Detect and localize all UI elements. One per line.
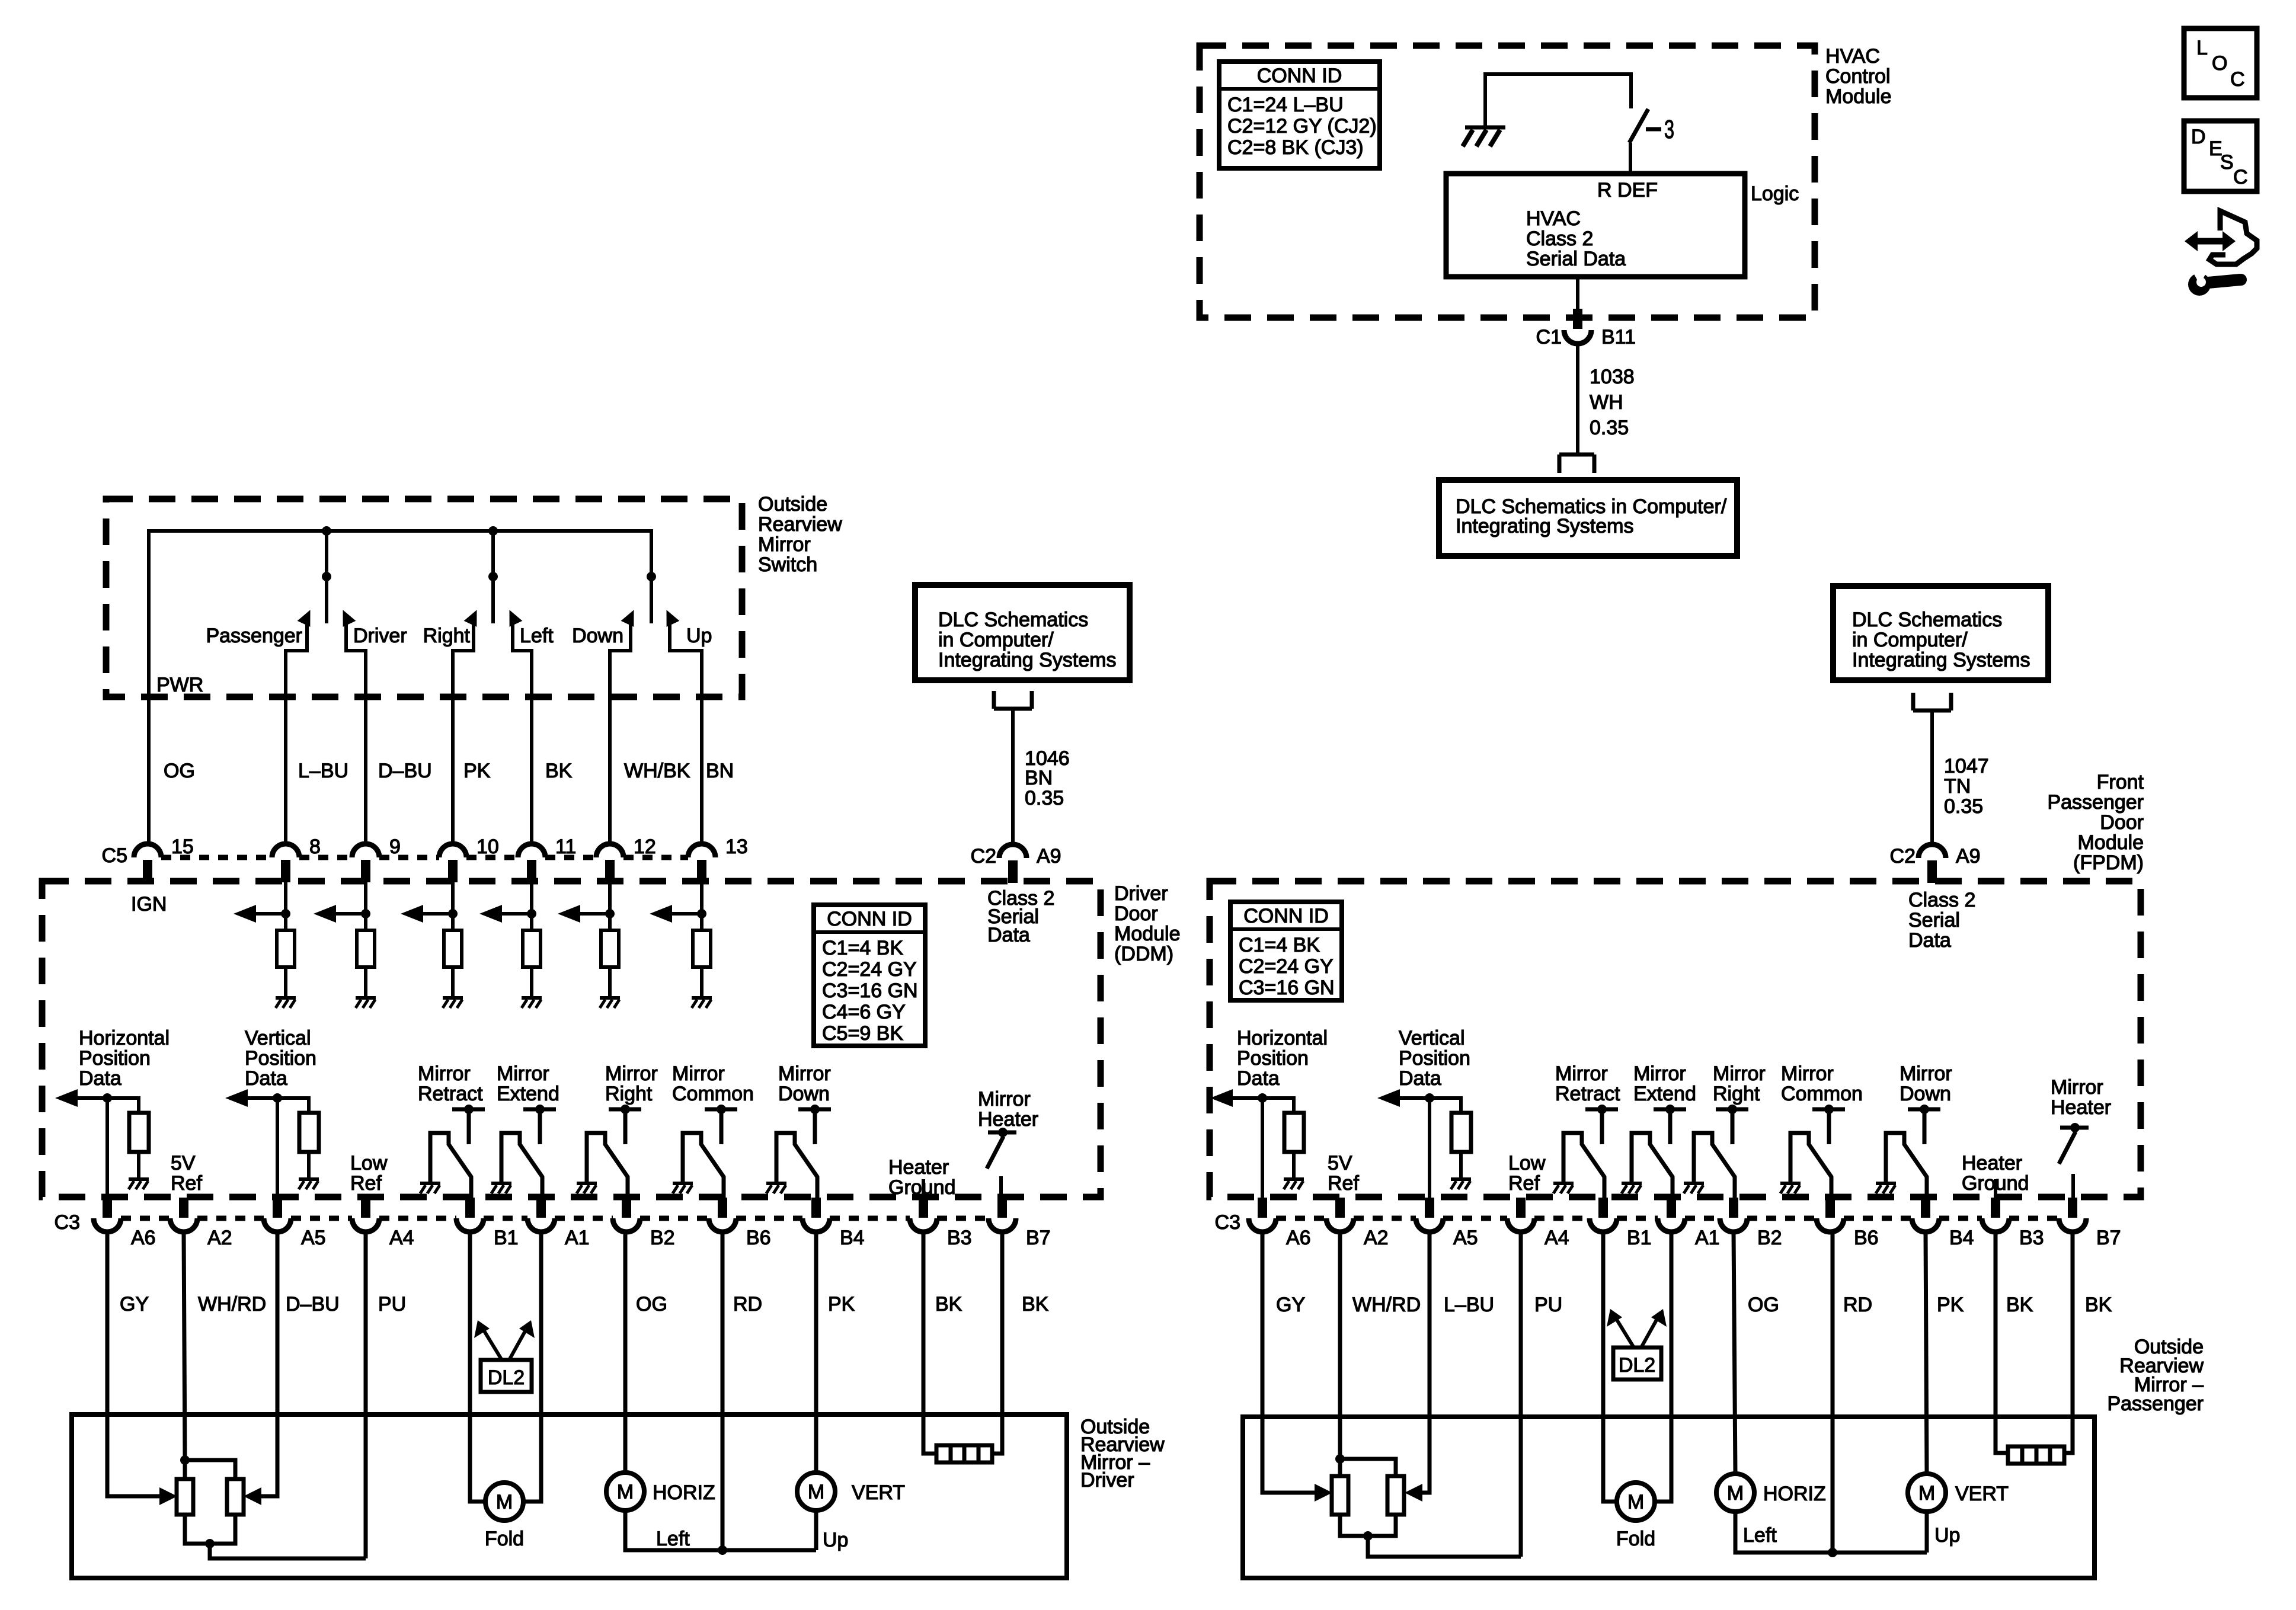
wire WH/RD (driver)	[184, 1232, 185, 1460]
svg-text:PK: PK	[463, 760, 491, 782]
svg-text:Integrating Systems: Integrating Systems	[938, 649, 1116, 671]
male pin C2/A9 (FPDM)	[1927, 860, 1937, 883]
svg-text:B1: B1	[1627, 1227, 1652, 1249]
male pin A6 (DDM)	[103, 1198, 112, 1218]
ground of switch Mirror Right (FPDM)	[1684, 1183, 1704, 1193]
svg-text:11: 11	[555, 836, 576, 858]
svg-text:Down: Down	[778, 1083, 830, 1105]
svg-text:Data: Data	[79, 1067, 121, 1090]
svg-text:Passenger: Passenger	[206, 625, 302, 647]
svg-text:C: C	[2230, 68, 2245, 91]
svg-text:A9: A9	[1037, 845, 1061, 868]
male pin 12	[605, 860, 615, 882]
label Mirror Extend (FPDM)	[1633, 1062, 1696, 1105]
connector C1/B11	[1564, 330, 1591, 344]
pull-down resistor pin 8	[277, 930, 295, 967]
heater ground stub B3 (DDM)	[922, 1179, 925, 1198]
male pin 10	[448, 860, 458, 882]
wire PK (driver)	[814, 1232, 818, 1473]
svg-text:B4: B4	[1949, 1227, 1974, 1249]
male pin A5 (DDM)	[273, 1198, 282, 1218]
svg-text:IGN: IGN	[131, 893, 167, 916]
male pin B4 (FPDM)	[1921, 1198, 1930, 1218]
svg-text:C2=8 BK (CJ3): C2=8 BK (CJ3)	[1227, 136, 1364, 159]
connector dome pin 15	[134, 844, 161, 857]
Outside Rearview Mirror Switch label	[758, 493, 842, 576]
wire motor VERT down (driver)	[814, 1510, 818, 1550]
motor M HORIZ (driver)	[606, 1473, 644, 1510]
motor M Fold (passenger)	[1617, 1483, 1655, 1521]
switch Mirror Down (FPDM) blade/contact	[1886, 1133, 1927, 1198]
ground (Vertical position, FPDM)	[1451, 1179, 1471, 1189]
Heater Ground label (DDM)	[888, 1156, 955, 1199]
svg-text:Fold: Fold	[485, 1528, 524, 1550]
male pin A2 (FPDM)	[1335, 1198, 1345, 1218]
svg-text:Ref: Ref	[171, 1172, 202, 1195]
svg-text:PK: PK	[828, 1293, 855, 1315]
svg-text:Mirror: Mirror	[1555, 1062, 1608, 1085]
svg-text:Vertical: Vertical	[1399, 1027, 1465, 1049]
ground of switch Mirror Extend (FPDM)	[1622, 1183, 1642, 1193]
male pin B2 (DDM)	[622, 1198, 631, 1218]
switch Mirror Common (FPDM) blade/contact	[1790, 1133, 1831, 1198]
Vertical Position Data label (FPDM)	[1399, 1027, 1470, 1090]
switch Mirror Common (DDM) T-bar	[705, 1105, 737, 1144]
svg-text:M: M	[617, 1481, 634, 1503]
wire BK B7 to heater (driver)	[992, 1232, 1002, 1454]
svg-text:Mirror: Mirror	[978, 1088, 1031, 1110]
male pin A5 (FPDM)	[1425, 1198, 1434, 1218]
connector cup B4 (DDM)	[802, 1218, 830, 1232]
junction dots on bus	[322, 526, 498, 536]
svg-text:Horizontal: Horizontal	[1237, 1027, 1328, 1049]
svg-text:Data: Data	[1908, 929, 1951, 952]
svg-text:B6: B6	[746, 1227, 771, 1249]
connector cup B2 (FPDM)	[1720, 1218, 1747, 1232]
connector dome C2/A9 (FPDM)	[1918, 844, 1946, 858]
male pin 15	[143, 860, 152, 882]
svg-text:A1: A1	[565, 1227, 590, 1249]
connector cup B6 (FPDM)	[1817, 1218, 1844, 1232]
svg-text:B2: B2	[650, 1227, 675, 1249]
svg-text:A2: A2	[207, 1227, 232, 1249]
svg-text:1038: 1038	[1590, 366, 1635, 388]
ground of switch Mirror Down (FPDM)	[1876, 1183, 1896, 1193]
svg-text:Fold: Fold	[1616, 1528, 1655, 1550]
switch Mirror Retract (FPDM) T-bar	[1585, 1105, 1618, 1144]
label Mirror Right (DDM)	[605, 1062, 658, 1105]
svg-text:Front: Front	[2097, 771, 2144, 793]
mirror heater element (driver)	[936, 1445, 992, 1462]
input wire pin 13	[700, 882, 703, 930]
motor M VERT (driver)	[797, 1473, 835, 1510]
svg-text:C1=4 BK: C1=4 BK	[1239, 934, 1320, 956]
switch Mirror Right (FPDM) T-bar	[1716, 1105, 1748, 1144]
Mirror Heater label (FPDM)	[2051, 1076, 2111, 1119]
svg-text:RD: RD	[733, 1293, 762, 1315]
svg-text:Left: Left	[520, 625, 554, 647]
Driver Door Module box	[42, 881, 1101, 1197]
male pin B7 (DDM)	[997, 1198, 1007, 1218]
svg-text:9: 9	[389, 836, 401, 858]
LOC box	[2184, 28, 2257, 98]
input wire pin 11	[530, 882, 533, 930]
male pin A1 (DDM)	[536, 1198, 546, 1218]
label Mirror Down (DDM)	[778, 1062, 831, 1105]
connector cup A2 (FPDM)	[1326, 1218, 1354, 1232]
svg-text:Horizontal: Horizontal	[79, 1027, 170, 1049]
Class 2 Serial Data label (FPDM)	[1908, 889, 1975, 952]
male pin A4 (FPDM)	[1516, 1198, 1526, 1218]
Vertical position data arrow	[225, 1089, 277, 1107]
Horizontal position data arrow	[55, 1089, 107, 1107]
wire A1 to fold motor (passenger)	[1654, 1232, 1671, 1502]
Vertical position sense wire	[273, 1093, 309, 1198]
svg-text:C1=4 BK: C1=4 BK	[822, 937, 903, 959]
svg-text:Position: Position	[1237, 1047, 1309, 1070]
arrowhead GY into pot	[159, 1487, 177, 1505]
wire motor HORIZ to common (passenger)	[1735, 1512, 1927, 1553]
connector dome pin 8	[272, 844, 299, 857]
vehicle outline icon	[2209, 211, 2257, 264]
wire motor VERT down (passenger)	[1925, 1512, 1929, 1553]
svg-text:13: 13	[725, 836, 748, 858]
switch contact Right	[453, 607, 483, 844]
ground of switch Mirror Retract (FPDM)	[1553, 1183, 1574, 1193]
DESC box	[2184, 121, 2257, 191]
mirror position potentiometer (passenger)	[1332, 1454, 1521, 1557]
male pin C2/A9 (DDM)	[1008, 860, 1018, 883]
CONN ID table (FPDM)	[1230, 902, 1342, 1000]
Low Ref label (FPDM)	[1508, 1152, 1546, 1195]
connector dome C2/A9 (DDM)	[999, 844, 1027, 858]
male pin B7 (FPDM)	[2068, 1198, 2077, 1218]
svg-text:Extend: Extend	[497, 1083, 559, 1105]
connector cup B7 (FPDM)	[2059, 1218, 2086, 1232]
svg-text:Retract: Retract	[418, 1083, 483, 1105]
svg-text:Mirror: Mirror	[2051, 1076, 2103, 1099]
svg-text:M: M	[1918, 1482, 1935, 1505]
svg-text:Mirror: Mirror	[1781, 1062, 1834, 1085]
svg-text:DL2: DL2	[1619, 1354, 1655, 1377]
Mirror Heater label (DDM)	[978, 1088, 1038, 1131]
svg-text:Common: Common	[1781, 1083, 1863, 1105]
mirror heater element (passenger)	[2008, 1446, 2064, 1464]
CONN ID table (HVAC)	[1219, 62, 1380, 168]
svg-text:WH: WH	[1590, 391, 1623, 414]
svg-text:C2=12 GY (CJ2): C2=12 GY (CJ2)	[1227, 115, 1377, 137]
svg-text:Vertical: Vertical	[245, 1027, 311, 1049]
svg-text:M: M	[496, 1491, 513, 1513]
logic arrow pin 9	[314, 905, 366, 923]
pull-down resistor pin 11	[523, 930, 541, 967]
motor M Fold (driver)	[485, 1483, 523, 1521]
svg-text:BK: BK	[2006, 1294, 2033, 1316]
male pin A1 (FPDM)	[1667, 1198, 1676, 1218]
svg-text:Serial: Serial	[1908, 909, 1960, 932]
svg-text:Heater: Heater	[2051, 1096, 2111, 1119]
switch Mirror Extend (FPDM) blade/contact	[1632, 1133, 1673, 1198]
wire B1 to fold motor (driver)	[470, 1232, 486, 1502]
wire A1 to fold motor (driver)	[523, 1232, 541, 1502]
male pin 8	[281, 860, 290, 882]
wire PU (passenger)	[1519, 1232, 1523, 1557]
svg-text:Ref: Ref	[1328, 1172, 1359, 1195]
svg-text:B7: B7	[2096, 1227, 2121, 1249]
svg-text:Door: Door	[1114, 902, 1158, 925]
DL2 arrows (driver)	[474, 1320, 535, 1361]
logic box HVAC Class 2 Serial Data	[1446, 174, 1745, 277]
HVAC Control Module label	[1825, 45, 1892, 108]
ground pin 8	[276, 998, 296, 1008]
svg-text:Class 2: Class 2	[1526, 228, 1593, 250]
switch Mirror Common (DDM) blade/contact	[683, 1133, 724, 1198]
label Mirror Retract (DDM)	[418, 1062, 483, 1105]
male pin B6 (DDM)	[718, 1198, 727, 1218]
Horizontal position sense wire	[103, 1093, 139, 1198]
CONN ID table (DDM)	[814, 905, 925, 1046]
svg-text:Switch: Switch	[758, 553, 817, 576]
heater ground stub B3 (FPDM)	[1994, 1179, 1997, 1198]
wire B1 to fold motor (passenger)	[1603, 1232, 1617, 1502]
switch contact Passenger	[286, 607, 316, 844]
ground pin 9	[356, 998, 376, 1008]
svg-text:A9: A9	[1956, 845, 1981, 868]
switch Mirror Heater (FPDM)	[2059, 1123, 2089, 1198]
svg-text:Rearview: Rearview	[758, 513, 842, 536]
svg-text:in Computer/: in Computer/	[938, 629, 1054, 651]
label Mirror Right (FPDM)	[1713, 1062, 1766, 1105]
ground of switch Mirror Extend (DDM)	[491, 1183, 511, 1193]
ground pin 11	[522, 998, 542, 1008]
switch Mirror Retract (FPDM) blade/contact	[1563, 1133, 1604, 1198]
svg-text:Up: Up	[1934, 1524, 1960, 1547]
svg-text:Left: Left	[1743, 1524, 1777, 1547]
svg-text:Data: Data	[1237, 1067, 1280, 1090]
label Mirror Common (DDM)	[672, 1062, 754, 1105]
pull-down resistor pin 12	[601, 930, 619, 967]
svg-text:Logic: Logic	[1751, 183, 1799, 205]
logic arrow pin 8	[234, 905, 286, 923]
svg-text:Mirror: Mirror	[672, 1062, 725, 1085]
wire D-BU (driver)	[261, 1232, 277, 1496]
svg-text:in Computer/: in Computer/	[1852, 629, 1968, 651]
detent dots on stems	[322, 572, 656, 581]
svg-text:PWR: PWR	[156, 674, 203, 696]
connector row C3 dashed line (DDM)	[121, 1216, 989, 1221]
svg-text:R DEF: R DEF	[1597, 179, 1658, 201]
Outside Rearview Mirror - Passenger label	[2107, 1336, 2204, 1415]
switch Mirror Extend (DDM) blade/contact	[501, 1133, 542, 1198]
svg-text:Right: Right	[1713, 1083, 1760, 1105]
svg-text:VERT: VERT	[1955, 1483, 2009, 1505]
svg-text:B6: B6	[1854, 1227, 1879, 1249]
DLC Schematics box (right)	[1833, 586, 2048, 680]
svg-text:10: 10	[477, 836, 499, 858]
5V Ref label (FPDM)	[1328, 1152, 1359, 1195]
wire GY (passenger)	[1262, 1232, 1315, 1493]
ground (Vertical position)	[299, 1179, 319, 1189]
ground of switch Mirror Common (FPDM)	[1780, 1183, 1801, 1193]
svg-text:OG: OG	[164, 760, 195, 782]
svg-text:A5: A5	[301, 1227, 326, 1249]
Class 2 Serial Data label (DDM)	[987, 887, 1054, 946]
svg-text:L: L	[2196, 37, 2208, 59]
svg-text:HORIZ: HORIZ	[1763, 1483, 1826, 1505]
svg-text:BK: BK	[545, 760, 573, 782]
motor M VERT (passenger)	[1908, 1474, 1946, 1512]
svg-text:Left: Left	[656, 1528, 690, 1550]
svg-text:B2: B2	[1757, 1227, 1782, 1249]
switch Mirror Retract (DDM) T-bar	[452, 1105, 485, 1144]
svg-text:(FPDM): (FPDM)	[2073, 852, 2144, 874]
logic arrow pin 12	[558, 905, 610, 923]
svg-text:Passenger: Passenger	[2107, 1393, 2204, 1415]
male pin A4 (DDM)	[361, 1198, 370, 1218]
svg-text:Heater: Heater	[978, 1108, 1038, 1131]
svg-text:Low: Low	[1508, 1152, 1546, 1174]
svg-text:M: M	[1727, 1482, 1744, 1505]
wire: logic box to connector C1	[1576, 277, 1579, 312]
svg-text:WH/RD: WH/RD	[198, 1293, 266, 1315]
svg-text:Heater: Heater	[888, 1156, 949, 1179]
arrowhead D-BU into pot	[244, 1487, 261, 1505]
switch Mirror Down (FPDM) T-bar	[1908, 1105, 1940, 1144]
Heater Ground label (FPDM)	[1962, 1152, 2029, 1195]
svg-text:D: D	[2191, 126, 2206, 148]
connector dome pin 13	[688, 844, 715, 857]
svg-text:VERT: VERT	[852, 1481, 905, 1504]
label Mirror Retract (FPDM)	[1555, 1062, 1620, 1105]
male pin C1/B11	[1573, 309, 1582, 329]
svg-text:C2: C2	[1890, 845, 1916, 868]
Horizontal position data arrow (FPDM)	[1210, 1089, 1262, 1107]
svg-text:C: C	[2233, 166, 2248, 188]
svg-text:Mirror: Mirror	[778, 1062, 831, 1085]
svg-text:Retract: Retract	[1555, 1083, 1620, 1105]
svg-text:B11: B11	[1601, 326, 1636, 348]
svg-text:C1=24 L–BU: C1=24 L–BU	[1227, 94, 1344, 116]
wrench icon	[2188, 266, 2247, 296]
connector dome pin 9	[352, 844, 379, 857]
svg-text:B3: B3	[2019, 1227, 2044, 1249]
male pin B6 (FPDM)	[1825, 1198, 1835, 1218]
wire 1047 TN 0.35	[1930, 710, 1934, 844]
male pin B2 (FPDM)	[1729, 1198, 1738, 1218]
Outside Rearview Mirror Switch box	[106, 499, 742, 697]
svg-text:C4=6 GY: C4=6 GY	[822, 1001, 906, 1023]
wire PU (driver)	[364, 1232, 368, 1558]
switch stem Passenger/Driver	[325, 531, 328, 623]
svg-text:Control: Control	[1825, 65, 1891, 88]
svg-text:Module: Module	[1114, 923, 1181, 945]
Horizontal position sense wire (FPDM)	[1258, 1093, 1294, 1198]
svg-text:Data: Data	[245, 1067, 287, 1090]
ground (Horizontal position, FPDM)	[1284, 1179, 1304, 1189]
svg-text:Passenger: Passenger	[2047, 791, 2144, 814]
svg-text:BK: BK	[935, 1293, 962, 1315]
svg-text:Class 2: Class 2	[1908, 889, 1975, 911]
switch Mirror Right (FPDM) blade/contact	[1694, 1133, 1735, 1198]
svg-text:B1: B1	[494, 1227, 519, 1249]
Vertical position resistor	[299, 1113, 319, 1152]
switch stem Right/Left	[491, 531, 495, 623]
svg-text:A2: A2	[1364, 1227, 1389, 1249]
male pin 9	[361, 860, 370, 882]
svg-text:(DDM): (DDM)	[1114, 943, 1173, 965]
wire OG (passenger)	[1734, 1232, 1735, 1473]
switch contact Up	[660, 607, 702, 844]
svg-text:5V: 5V	[171, 1152, 196, 1174]
DLC Schematics box (left)	[915, 585, 1130, 680]
Vertical position sense wire (FPDM)	[1425, 1093, 1461, 1198]
label Mirror Common (FPDM)	[1781, 1062, 1863, 1105]
svg-text:Outside: Outside	[758, 493, 827, 516]
Horizontal position resistor	[129, 1113, 149, 1152]
connector dome pin 10	[439, 844, 466, 857]
wire label 1046 BN 0.35	[1025, 747, 1070, 809]
svg-text:TN: TN	[1944, 775, 1971, 798]
switch Mirror Right (DDM) blade/contact	[587, 1133, 628, 1198]
svg-text:Mirror: Mirror	[1713, 1062, 1766, 1085]
switch actuator dash-3 mark	[1646, 115, 1674, 144]
arrowhead L-BU into pot (passenger)	[1405, 1484, 1422, 1502]
Outside Rearview Mirror - Driver label	[1080, 1416, 1165, 1491]
svg-text:Driver: Driver	[353, 625, 407, 647]
svg-text:Driver: Driver	[1080, 1469, 1134, 1491]
connector cup A5 (DDM)	[264, 1218, 291, 1232]
Horizontal position resistor (FPDM)	[1284, 1113, 1304, 1152]
svg-text:Mirror: Mirror	[605, 1062, 658, 1085]
wire RD common (passenger)	[1831, 1232, 1835, 1553]
svg-text:Mirror: Mirror	[758, 533, 811, 556]
connector cup A4 (FPDM)	[1507, 1218, 1534, 1232]
connector row C5 dashed line	[161, 855, 688, 860]
input wire pin 10	[451, 882, 455, 930]
svg-text:M: M	[808, 1481, 824, 1503]
label Mirror Down (FPDM)	[1900, 1062, 1952, 1105]
logic arrow pin 13	[650, 905, 702, 923]
svg-text:0.35: 0.35	[1590, 417, 1629, 439]
svg-text:WH/RD: WH/RD	[1352, 1294, 1421, 1316]
svg-text:Heater: Heater	[1962, 1152, 2022, 1174]
Front Passenger Door Module label	[2047, 771, 2144, 874]
svg-text:8: 8	[309, 836, 321, 858]
vehicle/wrench icon: double arrow	[2185, 231, 2236, 251]
svg-text:C3=16 GN: C3=16 GN	[822, 980, 918, 1002]
connector cup B3 (DDM)	[910, 1218, 937, 1232]
svg-text:Mirror: Mirror	[1900, 1062, 1952, 1085]
ground pin 12	[600, 998, 620, 1008]
arrowhead GY into pot (passenger)	[1315, 1484, 1332, 1502]
svg-text:GY: GY	[1276, 1294, 1305, 1316]
wire labels (passenger harness)	[1276, 1294, 2112, 1316]
connector cup B3 (FPDM)	[1982, 1218, 2009, 1232]
Outside Rearview Mirror - Driver box	[72, 1414, 1067, 1578]
DL2 box (driver)	[481, 1360, 532, 1392]
svg-text:DLC Schematics: DLC Schematics	[1852, 609, 2002, 631]
ground of switch Mirror Down (DDM)	[766, 1183, 786, 1193]
svg-text:WH/BK: WH/BK	[624, 760, 690, 782]
svg-text:L–BU: L–BU	[298, 760, 348, 782]
wire GY (driver)	[107, 1232, 160, 1496]
wire WH/RD (passenger)	[1338, 1232, 1342, 1459]
svg-text:S: S	[2220, 151, 2234, 174]
logic arrow pin 11	[479, 905, 532, 923]
male pin B1 (DDM)	[465, 1198, 475, 1218]
svg-text:Extend: Extend	[1633, 1083, 1696, 1105]
svg-text:Module: Module	[2077, 831, 2144, 854]
